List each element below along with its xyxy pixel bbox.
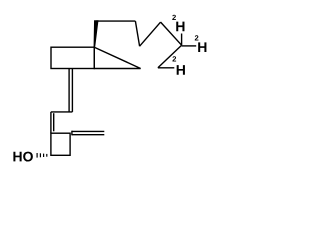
bond C5=C6 double bond second line (53, 113, 55, 131)
bond bold wedge from ring junction up to side chain (94, 21, 98, 48)
bond chain bond up to peak C23-C24 (140, 22, 161, 46)
label H of top 2H (176, 22, 184, 32)
label H of right 2H (198, 42, 206, 52)
bond C25 to right deuterium (182, 45, 197, 47)
chemical structure diagram: deuterated secosteroid (vitamin D analog) (0, 0, 222, 176)
ring fused five-membered ring drawn as triangle (94, 47, 140, 68)
label 2 of bottom 2H (172, 56, 176, 61)
bond methylene left connector stub (71, 131, 73, 136)
label 2 of top 2H (172, 15, 176, 20)
bond chain C25-C26 down-left (158, 45, 182, 68)
bond C25 to top deuterium (181, 34, 183, 46)
bond C7=C8 double bond second line (68, 69, 70, 112)
ring A-ring cyclohexane drawn as square (51, 133, 70, 155)
bond C5=C6 double bond main line (50, 112, 52, 133)
bond chain steep bond C22-C23 (135, 21, 139, 46)
label 2 of right 2H (195, 35, 199, 40)
bond C26 to bottom deuterium (158, 67, 174, 69)
bond C6-C7 single bond horizontal (51, 111, 73, 113)
label HO hydroxyl (13, 152, 32, 162)
label H of bottom 2H (177, 65, 185, 75)
bond exocyclic methylene C10=C19 lower line (72, 134, 104, 136)
bond hashed wedge from C3 to hydroxyl oxygen (37, 153, 47, 158)
ring C/D six-membered ring drawn as rectangle (51, 47, 94, 68)
bond chain bond down to CD2 carbon C24-C25 (161, 22, 182, 45)
bond exocyclic methylene C10=C19 upper line (72, 130, 104, 132)
bond C7=C8 double bond main line (71, 69, 73, 112)
bond side chain C20-C22 horizontal from wedge top (96, 20, 135, 22)
